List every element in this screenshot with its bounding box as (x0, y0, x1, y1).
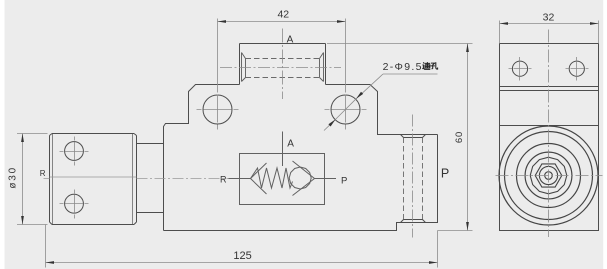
svg-text:ø30: ø30 (8, 166, 19, 189)
P port cylinder centerline (412, 115, 414, 238)
symbol R line (229, 178, 251, 180)
svg-text:R: R (220, 174, 227, 184)
leader arrow SW (328, 119, 335, 126)
svg-text:R: R (40, 169, 46, 178)
text tongkong (through-hole) hand-drawn glyphs (422, 62, 437, 69)
dim 42 arrows (218, 20, 227, 23)
hex plug dodecagon r18.3 (530, 157, 567, 194)
spring seat left (251, 163, 267, 194)
side screw hole right (569, 61, 584, 76)
top boss horizontal centerline (220, 67, 341, 69)
top boss bore chamfer left (242, 53, 246, 82)
valve seat (293, 161, 315, 196)
dim 42 line (218, 21, 346, 23)
plug circle r9.1 (539, 166, 557, 184)
left block hole top (65, 142, 84, 161)
svg-text:A: A (287, 138, 294, 149)
phi9.5 hole left crosshair (197, 88, 239, 132)
hex plug hexagon (535, 164, 562, 187)
side screw hole right crosshair (566, 57, 589, 81)
P port cylinder cap (401, 135, 426, 138)
top boss hidden bore lines (246, 59, 320, 78)
side screw hole left (512, 61, 527, 76)
dim 125 arrows (46, 261, 55, 264)
ball poppet (289, 167, 311, 189)
dim phi30 arrows (21, 134, 24, 143)
side view body (500, 44, 599, 231)
dim 60 arrows (466, 44, 469, 53)
phi9.5 hole right crosshair (325, 88, 367, 132)
left block hole bottom (65, 194, 84, 213)
dim 42 extension lines (218, 19, 346, 88)
concentric circle r44 (505, 132, 593, 220)
P port cylinder base (401, 220, 426, 223)
leader chord through hole (336, 99, 357, 120)
plug circle r3.8 (545, 172, 553, 180)
dim phi30 line (22, 134, 24, 225)
leader diagonal line (324, 74, 383, 131)
svg-text:A: A (287, 34, 294, 45)
concentric circle r23.4 (525, 152, 572, 199)
side screw hole left crosshair (509, 57, 532, 81)
phi9.5 hole right (331, 95, 360, 124)
top boss vertical centerline (282, 29, 284, 100)
dim 125 line (46, 262, 438, 264)
dim 32 arrows (500, 22, 509, 25)
symbol A line (282, 132, 284, 167)
svg-text:P: P (441, 167, 449, 181)
dim 60 extension lines (327, 44, 473, 231)
svg-text:32: 32 (543, 12, 555, 24)
left mounting block outline (50, 134, 137, 225)
main horizontal centerline (44, 178, 229, 180)
side view horizontal centerline (496, 175, 603, 177)
dim 60 line (467, 44, 469, 231)
valve body outline (164, 44, 438, 231)
leader 2-phi9.5 shelf (383, 73, 438, 75)
dim 125 extension lines (46, 225, 438, 268)
left block split line (50, 176, 137, 178)
side view top band lines (500, 87, 599, 126)
dim 32 line (500, 23, 599, 25)
phi9.5 hole left (203, 95, 232, 124)
side view vertical centerline (548, 30, 550, 238)
left block chamfer inner lines (53, 134, 133, 224)
svg-text:125: 125 (233, 250, 251, 262)
left block hole top crosshair (60, 137, 89, 166)
svg-text:P: P (341, 175, 347, 186)
leader arrow NE (356, 92, 363, 99)
symbol P line (315, 178, 337, 180)
svg-text:2-Φ9.5: 2-Φ9.5 (383, 61, 423, 73)
left block hole bottom crosshair (60, 190, 89, 219)
neck between block and body (137, 144, 164, 213)
P port cylinder hidden sides (404, 138, 423, 220)
symbol box (240, 154, 325, 205)
concentric circle r49.5 (499, 126, 598, 225)
svg-text:60: 60 (454, 131, 465, 143)
svg-text:42: 42 (277, 8, 289, 20)
spring (251, 168, 293, 188)
dim 32 extension lines (500, 21, 599, 44)
top boss bore chamfer right (320, 53, 324, 82)
concentric circle r32 (517, 144, 581, 208)
dim phi30 extension lines (17, 134, 48, 225)
